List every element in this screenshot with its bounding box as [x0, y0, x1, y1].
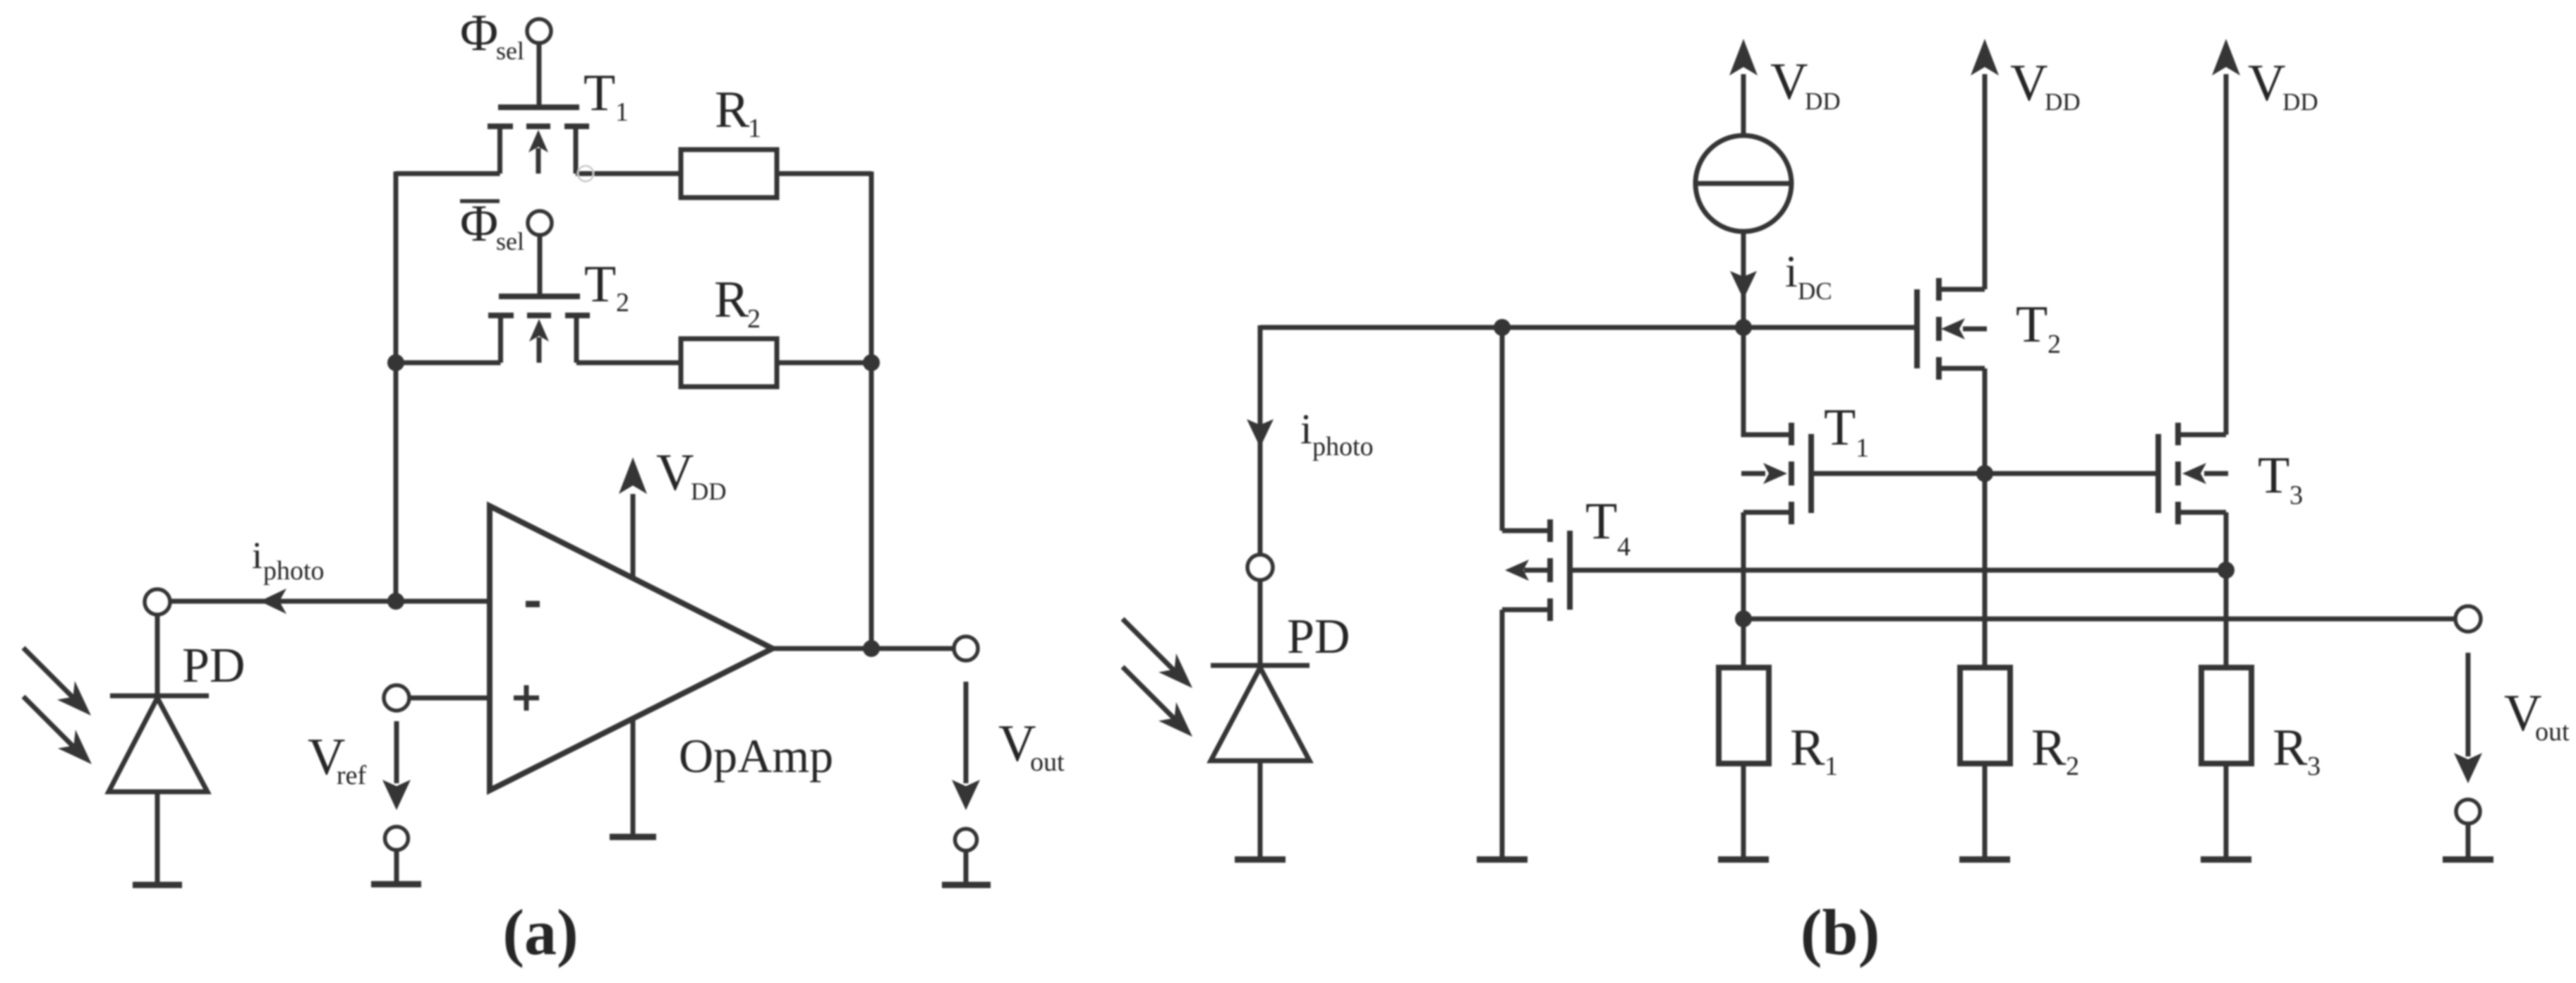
svg-text:DD: DD [2045, 88, 2081, 116]
wire T4 source to ground [1500, 610, 1505, 860]
resistor R2 (b) [1960, 668, 2079, 781]
svg-text:PD: PD [182, 639, 245, 693]
terminal PHIsel [460, 4, 551, 65]
svg-text:(a): (a) [502, 896, 578, 968]
wire left rail [394, 171, 399, 601]
svg-text:OpAmp: OpAmp [679, 729, 833, 783]
light arrows into PD [23, 648, 92, 764]
ground PD (b) [1235, 857, 1286, 863]
terminal photodiode PD (b) [1247, 555, 1273, 580]
terminal PHIsel-bar [460, 195, 552, 255]
junction left rail / inverting input [387, 593, 404, 610]
svg-text:T: T [1824, 399, 1856, 457]
ground Vout (b) [2443, 824, 2493, 860]
svg-text:V: V [2248, 54, 2285, 112]
label (b) [1801, 896, 1880, 968]
node bus junction iDC [1735, 319, 1752, 336]
supply VDD of T2 [1971, 39, 2081, 289]
wire T1 source to left rail [396, 171, 500, 176]
svg-text:1: 1 [748, 114, 761, 143]
svg-text:T: T [2258, 447, 2290, 505]
svg-text:DD: DD [691, 478, 727, 505]
ground R3 [2201, 857, 2251, 863]
wire R3 to ground [2224, 764, 2229, 860]
svg-text:2: 2 [2048, 330, 2061, 359]
svg-text:V: V [2010, 54, 2048, 112]
svg-text:photo: photo [263, 556, 325, 586]
arrow iDC [1730, 231, 1832, 327]
wire T2 source down to mirror node [1983, 368, 1988, 668]
label (a) [502, 896, 578, 968]
transistor T3 (b) [2158, 423, 2303, 524]
wire PHIsel-bar to T2 gate [538, 235, 543, 295]
wire T4 gate bus [1570, 568, 2226, 573]
resistor R1 (b) [1719, 668, 1838, 781]
wire photodiode to inverting input (iphoto) [170, 534, 490, 614]
terminal Vout lower (b) [2456, 800, 2480, 824]
svg-text:T: T [583, 64, 615, 122]
terminal Vout lower [955, 829, 977, 851]
svg-text:Φ: Φ [460, 4, 498, 62]
svg-text:R: R [2273, 719, 2308, 777]
wire R2 to right rail [777, 361, 871, 366]
svg-text:R: R [714, 271, 749, 329]
arrow Vout (b) [2454, 653, 2570, 783]
junction bus / T4 drain [1494, 319, 1511, 336]
transistor T1 (b) [1741, 399, 1869, 524]
svg-text:3: 3 [2290, 481, 2303, 510]
svg-text:i: i [1785, 246, 1798, 296]
arrow Vout [952, 682, 1065, 810]
arrow Vref [308, 721, 411, 810]
wire iphoto branch [1247, 325, 1374, 555]
terminal Vout [954, 637, 978, 661]
svg-text:4: 4 [1617, 532, 1631, 562]
light arrows into PD (b) [1123, 619, 1192, 737]
svg-text:T: T [1585, 493, 1617, 550]
svg-text:V: V [1770, 53, 1808, 111]
wire T2 drain to R2 [576, 361, 681, 366]
ground R2 [1959, 857, 2010, 863]
photodiode PD (b) [1211, 580, 1350, 860]
wire mirror gate line T1-T3 [1811, 471, 2158, 476]
wire Vout line (b) [1743, 617, 2455, 622]
svg-text:2: 2 [2066, 752, 2079, 781]
svg-text:sel: sel [496, 227, 524, 255]
junction left rail / T2 [387, 354, 404, 371]
terminal Vref lower [385, 827, 409, 850]
wire T3 source down to R3 [2224, 512, 2229, 668]
svg-text:ref: ref [337, 761, 367, 790]
wire T1 source down to R1 node [1741, 512, 1746, 668]
svg-text:R: R [1790, 719, 1825, 777]
svg-text:V: V [656, 444, 694, 502]
wire bus to T4 drain [1500, 327, 1505, 531]
supply VDD of op-amp [619, 444, 727, 578]
terminal photodiode PD [145, 589, 170, 615]
wire R1 to ground [1741, 764, 1746, 860]
svg-text:i: i [1300, 406, 1312, 452]
wire top bus [1260, 325, 1917, 330]
resistor R3 (b) [2201, 668, 2321, 781]
ground R1 [1718, 857, 1769, 863]
svg-text:2: 2 [616, 288, 629, 318]
svg-text:i: i [252, 534, 262, 577]
svg-text:photo: photo [1312, 432, 1374, 462]
wire R1 to right rail [777, 171, 871, 176]
svg-text:Φ: Φ [460, 195, 498, 253]
terminal Vref [384, 685, 490, 711]
wire PHIsel to T1 gate [537, 43, 542, 106]
svg-text:T: T [2016, 296, 2048, 354]
wire bus to T1 drain [1743, 327, 1789, 435]
ground PD [133, 882, 182, 888]
wire right rail [869, 171, 874, 649]
svg-text:DD: DD [1805, 88, 1841, 115]
transistor T1 [488, 64, 629, 174]
junction T2 source / mirror line [1976, 465, 1993, 482]
svg-text:DD: DD [2282, 88, 2318, 116]
svg-text:PD: PD [1287, 610, 1350, 664]
svg-text:out: out [2535, 717, 2570, 747]
current source iDC [1695, 135, 1791, 231]
transistor T4 [1502, 493, 1631, 621]
svg-text:3: 3 [2307, 752, 2321, 781]
svg-text:sel: sel [496, 37, 524, 65]
resistor R2 [681, 271, 777, 387]
resistor R1 [681, 81, 777, 198]
photodiode PD [109, 615, 245, 885]
wire op-amp output [773, 646, 954, 651]
svg-text:1: 1 [1856, 433, 1869, 463]
ground op-amp [610, 718, 656, 837]
svg-text:(b): (b) [1801, 896, 1880, 968]
svg-text:T: T [584, 255, 616, 313]
supply VDD of current source [1729, 39, 1841, 135]
ground Vout [942, 851, 991, 885]
wire T1 drain to R1 [576, 166, 681, 181]
ground Vref [371, 850, 421, 884]
terminal Vout (b) [2455, 606, 2481, 632]
wire R2 to ground [1983, 764, 1988, 860]
svg-text:1: 1 [615, 97, 629, 127]
supply VDD of T3 [2212, 39, 2318, 435]
svg-text:2: 2 [747, 304, 761, 334]
svg-text:R: R [2031, 719, 2067, 777]
svg-text:1: 1 [1825, 752, 1838, 781]
wire T2 source to left rail [396, 361, 501, 366]
junction output / feedback [863, 640, 880, 657]
transistor T2 (b) [1917, 278, 2061, 380]
svg-text:DC: DC [1798, 277, 1832, 305]
junction T3 source / T4 gate bus [2218, 562, 2235, 579]
op-amp OpAmp [490, 506, 833, 790]
svg-text:R: R [715, 81, 750, 139]
ground T4 [1477, 857, 1528, 863]
transistor T2 [488, 255, 629, 363]
svg-text:out: out [1030, 747, 1065, 777]
junction right rail / R2 [863, 354, 880, 371]
junction T1 source / Vout line [1735, 610, 1752, 627]
